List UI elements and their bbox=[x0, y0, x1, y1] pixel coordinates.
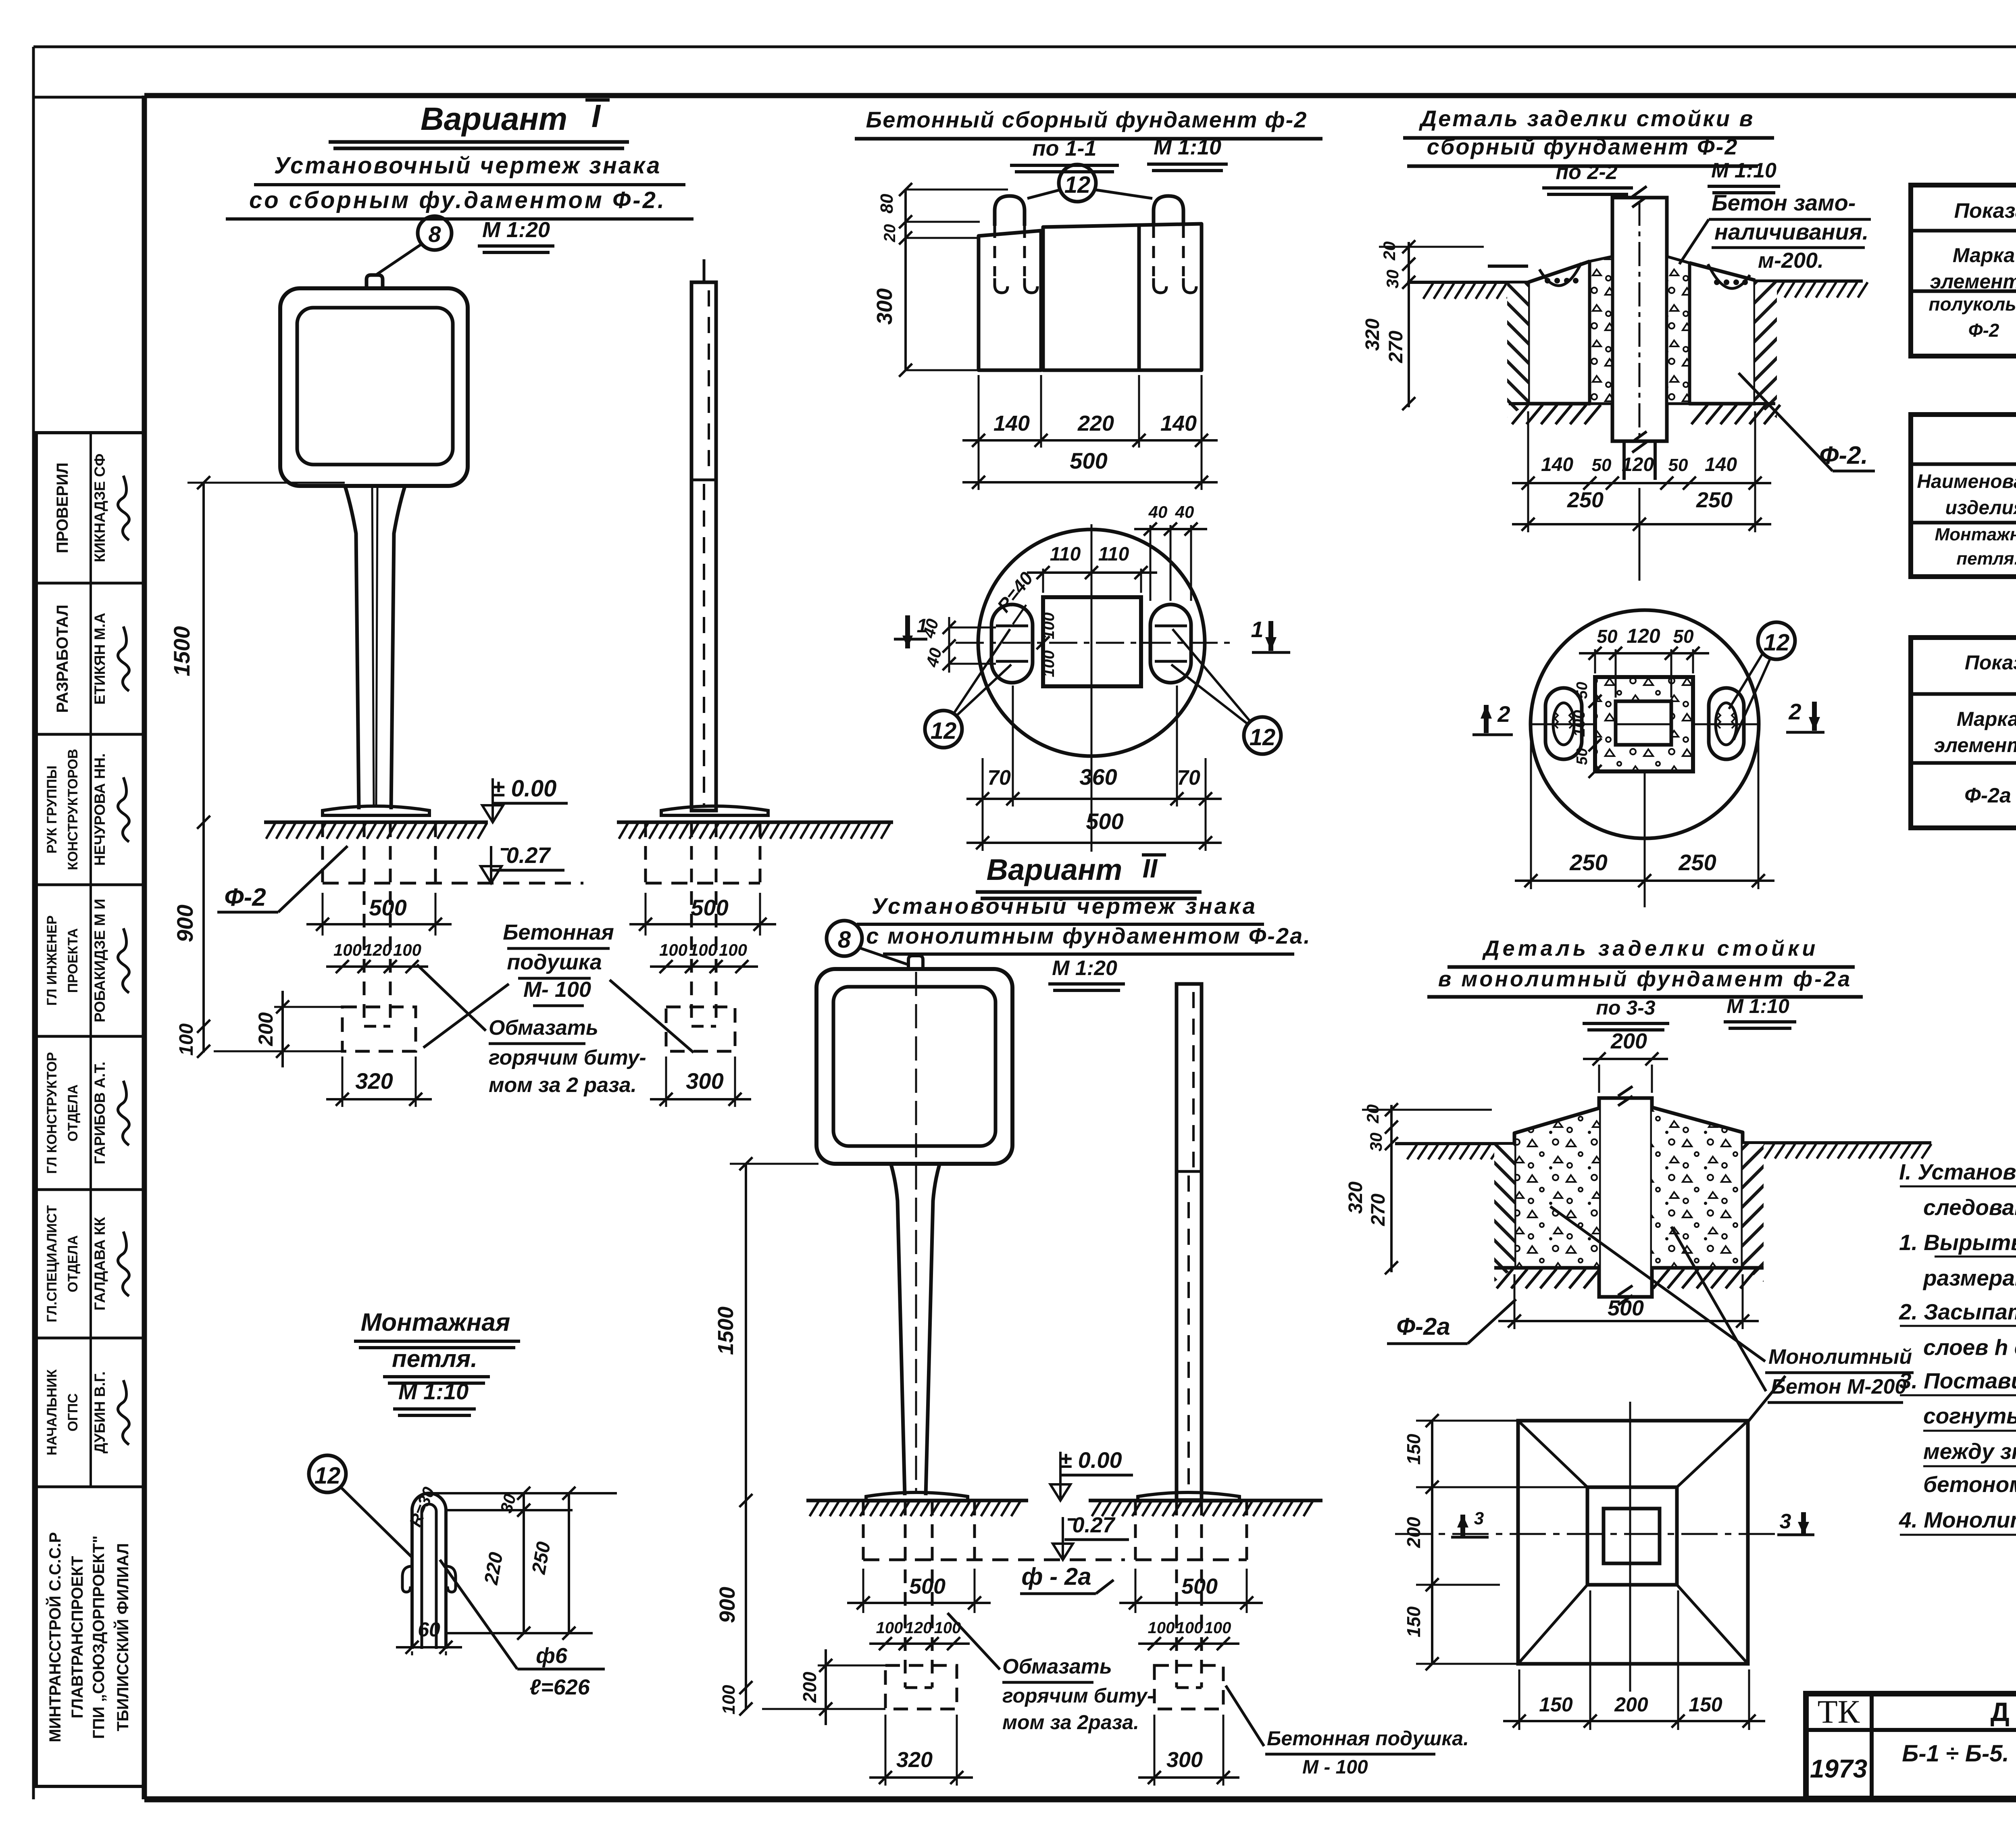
svg-text:Показатели на сборный фундамен: Показатели на сборный фундамент Вариант … bbox=[1954, 199, 2016, 223]
svg-text:100: 100 bbox=[689, 940, 717, 959]
svg-text:мом за 2раза.: мом за 2раза. bbox=[1002, 1711, 1139, 1734]
svg-text:500: 500 bbox=[691, 895, 728, 920]
svg-text:1. Вырыть яму, устроить бет: 1. Вырыть яму, устроить бетонную подушку… bbox=[1899, 1230, 2016, 1255]
svg-text:по 2-2: по 2-2 bbox=[1556, 160, 1617, 184]
svg-text:120: 120 bbox=[905, 1619, 932, 1637]
svg-text:2. Засыпать яму грунтом с: 2. Засыпать яму грунтом с послойным трам… bbox=[1899, 1299, 2016, 1324]
svg-text:Ф-2: Ф-2 bbox=[1968, 320, 1999, 341]
svg-text:Обмазать: Обмазать bbox=[489, 1016, 598, 1040]
ground line right 3-3 bbox=[1743, 1141, 1931, 1144]
plan centerlines bbox=[1091, 524, 1093, 762]
loop hook right bbox=[446, 1566, 456, 1592]
svg-text:элемента.: элемента. bbox=[1930, 270, 2016, 293]
svg-text:РУК ГРУППЫ: РУК ГРУППЫ bbox=[44, 765, 60, 853]
svg-text:Бетонная подушка.: Бетонная подушка. bbox=[1267, 1727, 1469, 1750]
plan 2-2 centerline horizontal bbox=[1532, 723, 1758, 725]
svg-text:Показатели на монолитный фу: Показатели на монолитный фундамент. Вари… bbox=[1965, 651, 2016, 674]
foundation pit dashed variant I side bbox=[644, 823, 647, 883]
svg-text:Вариант: Вариант bbox=[987, 853, 1123, 886]
svg-text:РАЗРАБОТАЛ: РАЗРАБОТАЛ bbox=[54, 604, 71, 713]
dim 200 cushion bbox=[281, 991, 284, 1067]
callout 12 left plan bbox=[925, 711, 962, 748]
post front variant II bbox=[891, 1165, 939, 1495]
dim 30 loop bbox=[429, 1492, 617, 1494]
section mark 1 right bbox=[1268, 621, 1273, 651]
svg-text:300: 300 bbox=[873, 288, 897, 325]
svg-text:2: 2 bbox=[1497, 701, 1510, 727]
svg-text:М 1:10: М 1:10 bbox=[1154, 135, 1221, 159]
svg-text:200: 200 bbox=[799, 1671, 820, 1703]
svg-text:Ф-2: Ф-2 bbox=[224, 884, 266, 911]
svg-text:12: 12 bbox=[1250, 724, 1276, 750]
sign plate variant II front bbox=[816, 969, 1012, 1164]
pit hatch left wall 2-2 bbox=[1507, 283, 1528, 417]
sign top nub front view bbox=[367, 275, 383, 289]
svg-text:1500: 1500 bbox=[169, 626, 194, 677]
ground line variant II side bbox=[1089, 1499, 1322, 1503]
svg-text:сборный фундамент Ф-2: сборный фундамент Ф-2 bbox=[1427, 134, 1739, 159]
left dim chain 3-3 bbox=[1390, 1105, 1393, 1272]
svg-text:ГПИ „СОЮЗДОРПРОЕКТ": ГПИ „СОЮЗДОРПРОЕКТ" bbox=[90, 1536, 108, 1739]
svg-text:250: 250 bbox=[1569, 850, 1607, 875]
svg-text:Бетон М-200: Бетон М-200 bbox=[1771, 1375, 1906, 1398]
svg-text:8: 8 bbox=[428, 221, 441, 247]
svg-text:3: 3 bbox=[1780, 1510, 1791, 1533]
svg-text:200: 200 bbox=[1403, 1517, 1424, 1548]
svg-text:ЕТИКЯН М.А: ЕТИКЯН М.А bbox=[92, 613, 108, 705]
foundation block right element bbox=[1043, 224, 1202, 370]
svg-text:ф - 2а: ф - 2а bbox=[1021, 1563, 1091, 1590]
table showers for monolithic foundation variant II bbox=[1911, 638, 2016, 828]
svg-text:Монтажная: Монтажная bbox=[1935, 525, 2016, 544]
side view variant I bbox=[691, 282, 716, 811]
svg-text:Деталь заделки стойки в: Деталь заделки стойки в bbox=[1419, 106, 1755, 131]
foundation block left 2-2 bbox=[1528, 261, 1590, 404]
svg-text:ОТДЕЛА: ОТДЕЛА bbox=[65, 1084, 81, 1142]
svg-text:250: 250 bbox=[1696, 488, 1733, 512]
svg-text:3. Поставить сборные полуко: 3. Поставить сборные полукольца, петли в… bbox=[1899, 1368, 2016, 1393]
svg-text:250: 250 bbox=[1567, 488, 1604, 512]
svg-text:12: 12 bbox=[314, 1463, 341, 1489]
svg-text:320: 320 bbox=[355, 1068, 393, 1094]
svg-text:20: 20 bbox=[881, 224, 899, 243]
svg-text:размерам, указанным на че: размерам, указанным на чертеже. bbox=[1922, 1265, 2016, 1290]
svg-text:500: 500 bbox=[1070, 448, 1107, 473]
svg-text:30: 30 bbox=[1383, 270, 1402, 289]
callout 12 circle loop detail bbox=[309, 1455, 346, 1492]
svg-text:Деталь заделки стойки: Деталь заделки стойки bbox=[1482, 936, 1819, 961]
plan circle 2-2 bbox=[1531, 610, 1759, 838]
svg-text:100: 100 bbox=[176, 1023, 197, 1056]
drawing frame bbox=[144, 93, 2016, 98]
pit hatch right wall 2-2 bbox=[1755, 282, 1777, 418]
svg-text:20: 20 bbox=[1363, 1105, 1382, 1124]
dims left 150 200 150 plan 3-3 bbox=[1431, 1421, 1433, 1664]
svg-text:100: 100 bbox=[1570, 710, 1588, 737]
svg-text:ТБИЛИССКИЙ ФИЛИАЛ: ТБИЛИССКИЙ ФИЛИАЛ bbox=[113, 1543, 132, 1732]
svg-text:140: 140 bbox=[1705, 454, 1737, 475]
section mark 2 right bbox=[1812, 702, 1817, 731]
svg-text:100: 100 bbox=[1204, 1619, 1231, 1637]
svg-text:следовательности:: следовательности: bbox=[1923, 1195, 2016, 1220]
cushion dashed variant II front bbox=[885, 1665, 957, 1709]
svg-text:300: 300 bbox=[1166, 1748, 1203, 1772]
svg-text:50: 50 bbox=[1673, 626, 1694, 647]
section mark 2 left bbox=[1484, 705, 1489, 733]
pit walls hatch 3-3 bbox=[1494, 1145, 1514, 1282]
left dim chain variant I bbox=[202, 483, 205, 1052]
sign plate front view bbox=[280, 288, 468, 486]
callout 12 right plan bbox=[1244, 717, 1281, 754]
svg-text:ДУБИН В.Г.: ДУБИН В.Г. bbox=[92, 1371, 108, 1454]
callout 12 circle precast front bbox=[1059, 165, 1096, 202]
svg-text:270: 270 bbox=[1368, 1194, 1389, 1226]
plan slot right bbox=[1150, 604, 1191, 683]
concrete ring square 2-2 bbox=[1595, 677, 1693, 771]
foundation block right 2-2 bbox=[1689, 263, 1755, 404]
left title block table bbox=[36, 433, 145, 1786]
svg-text:М 1:20: М 1:20 bbox=[1052, 957, 1117, 980]
svg-text:Бетон замо-: Бетон замо- bbox=[1712, 190, 1856, 215]
ground line variant II front bbox=[806, 1499, 1028, 1503]
montage loop right front bbox=[1154, 196, 1183, 226]
ground line left 3-3 bbox=[1395, 1142, 1514, 1145]
leader beton bbox=[1679, 219, 1709, 264]
svg-text:по 3-3: по 3-3 bbox=[1596, 996, 1655, 1019]
svg-text:мом за 2 раза.: мом за 2 раза. bbox=[489, 1073, 637, 1097]
foundation block left element bbox=[979, 231, 1041, 370]
svg-text:М 1:10: М 1:10 bbox=[1727, 995, 1789, 1017]
svg-text:М 1:10: М 1:10 bbox=[398, 1379, 469, 1404]
svg-text:м-200.: м-200. bbox=[1758, 248, 1824, 273]
svg-text:I. Установку знака осуществить: I. Установку знака осуществить в следующ… bbox=[1899, 1159, 2016, 1184]
svg-text:слоев h слоя - 20см.: слоев h слоя - 20см. bbox=[1923, 1335, 2016, 1360]
loop socket arc left bbox=[1539, 263, 1581, 286]
base plate variant II side bbox=[1138, 1492, 1239, 1501]
svg-text:ПРОЕКТА: ПРОЕКТА bbox=[65, 928, 81, 993]
svg-text:по 1-1: по 1-1 bbox=[1032, 136, 1096, 160]
svg-text:120: 120 bbox=[1627, 625, 1660, 647]
svg-text:900: 900 bbox=[715, 1587, 739, 1623]
left dim chain variant II bbox=[745, 1164, 747, 1710]
svg-text:изделия.: изделия. bbox=[1945, 497, 2016, 519]
svg-text:150: 150 bbox=[1539, 1693, 1573, 1716]
pit dashed variant II side bbox=[1134, 1502, 1137, 1560]
svg-text:Вариант: Вариант bbox=[421, 101, 567, 137]
leader obmazat bbox=[417, 965, 486, 1031]
svg-text:горячим биту-: горячим биту- bbox=[489, 1046, 646, 1069]
post section 2-2 bbox=[1612, 198, 1667, 441]
svg-text:100: 100 bbox=[719, 940, 747, 959]
svg-text:100: 100 bbox=[1176, 1619, 1203, 1637]
svg-text:110: 110 bbox=[1050, 544, 1081, 565]
svg-text:500: 500 bbox=[909, 1574, 946, 1598]
svg-text:120: 120 bbox=[1622, 454, 1654, 475]
ground level left 2-2 bbox=[1488, 265, 1528, 268]
svg-text:500: 500 bbox=[369, 895, 406, 920]
ground hatch left 2-2 bbox=[1423, 283, 1527, 299]
svg-text:3: 3 bbox=[1474, 1509, 1484, 1528]
svg-text:с монолитным фундаментом Ф-2: с монолитным фундаментом Ф-2а. bbox=[866, 923, 1311, 948]
foundation pit dashed variant I front bbox=[321, 823, 324, 883]
svg-text:12: 12 bbox=[931, 718, 957, 744]
svg-text:ℓ=626: ℓ=626 bbox=[529, 1675, 590, 1699]
outer sheet border bbox=[33, 46, 2016, 48]
svg-text:100: 100 bbox=[333, 940, 362, 959]
leader loop diagonal bbox=[440, 1560, 517, 1669]
svg-text:0.27: 0.27 bbox=[1072, 1513, 1116, 1537]
svg-text:± 0.00: ± 0.00 bbox=[492, 775, 557, 802]
svg-text:120: 120 bbox=[363, 940, 392, 959]
svg-text:150: 150 bbox=[1403, 1434, 1424, 1465]
svg-text:ГЛ.СПЕЦИАЛИСТ: ГЛ.СПЕЦИАЛИСТ bbox=[44, 1205, 60, 1323]
section mark 1 left bbox=[905, 615, 910, 648]
svg-text:Монолитный: Монолитный bbox=[1768, 1345, 1912, 1369]
svg-text:270: 270 bbox=[1385, 331, 1407, 363]
svg-text:Монтажная: Монтажная bbox=[361, 1309, 510, 1336]
notes emphasis underlines bbox=[1900, 1186, 2016, 1188]
svg-text:согнуть и сварить фуг с др: согнуть и сварить фуг с другом, после эт… bbox=[1923, 1403, 2016, 1428]
monolithic concrete block 3-3 bbox=[1514, 1108, 1599, 1268]
svg-text:Б-1 ÷ Б-5. Установочный чертеж: Б-1 ÷ Б-5. Установочный чертеж Фундамент bbox=[1902, 1740, 2016, 1767]
ground line variant I side bbox=[617, 821, 893, 824]
svg-text:100: 100 bbox=[1040, 650, 1058, 677]
svg-text:360: 360 bbox=[1079, 764, 1117, 790]
svg-text:8: 8 bbox=[838, 927, 851, 953]
svg-text:НАЧАЛЬНИК: НАЧАЛЬНИК bbox=[44, 1369, 60, 1456]
svg-text:бетоном м-100 на мелком: бетоном м-100 на мелком заполнителе. bbox=[1923, 1472, 2016, 1497]
svg-text:ГАРИБОВ А.Т.: ГАРИБОВ А.Т. bbox=[92, 1062, 108, 1165]
svg-text:140: 140 bbox=[993, 411, 1030, 436]
loop socket arc right bbox=[1708, 264, 1750, 288]
pit bottom hatch 3-3 bbox=[1497, 1269, 1756, 1288]
base plate variant II front bbox=[866, 1492, 968, 1501]
loop hook left bbox=[402, 1566, 412, 1592]
svg-text:Обмазать: Обмазать bbox=[1002, 1655, 1112, 1678]
left dim chain 2-2 bbox=[1408, 242, 1410, 407]
svg-text:горячим биту-: горячим биту- bbox=[1002, 1684, 1154, 1707]
svg-text:наличивания.: наличивания. bbox=[1714, 219, 1868, 244]
plan center square bbox=[1043, 597, 1141, 686]
svg-text:ОТДЕЛА: ОТДЕЛА bbox=[65, 1235, 81, 1292]
svg-text:250: 250 bbox=[1678, 850, 1716, 875]
svg-text:ГЛ КОНСТРУКТОР: ГЛ КОНСТРУКТОР bbox=[44, 1052, 60, 1174]
svg-text:ГАЛДАВА КК: ГАЛДАВА КК bbox=[92, 1217, 108, 1311]
svg-text:Установочный чертеж знака: Установочный чертеж знака bbox=[872, 893, 1257, 919]
cushion dashed variant II side bbox=[1154, 1665, 1223, 1709]
svg-text:50: 50 bbox=[1597, 626, 1618, 647]
svg-text:1500: 1500 bbox=[714, 1307, 738, 1355]
svg-text:РОБАКИДЗЕ М И: РОБАКИДЗЕ М И bbox=[92, 899, 108, 1023]
svg-text:200: 200 bbox=[1614, 1693, 1648, 1716]
svg-text:НЕЧУРОВА НН.: НЕЧУРОВА НН. bbox=[92, 753, 108, 866]
svg-text:М 1:10: М 1:10 bbox=[1711, 159, 1776, 182]
svg-text:подушка: подушка bbox=[507, 950, 602, 974]
svg-text:60: 60 bbox=[418, 1618, 440, 1641]
svg-text:Ф-2а: Ф-2а bbox=[1964, 784, 2011, 807]
plan slot left bbox=[991, 604, 1033, 683]
svg-text:50: 50 bbox=[1668, 455, 1688, 475]
left dim chain precast front bbox=[904, 190, 907, 370]
svg-text:ПРОВЕРИЛ: ПРОВЕРИЛ bbox=[54, 463, 71, 553]
svg-text:ТК: ТК bbox=[1818, 1693, 1860, 1730]
svg-text:12: 12 bbox=[1064, 172, 1091, 198]
svg-text:150: 150 bbox=[1689, 1693, 1722, 1716]
section mark 3 left plan bbox=[1460, 1515, 1465, 1537]
leader lines podushka bbox=[423, 984, 509, 1048]
svg-text:100: 100 bbox=[1040, 613, 1058, 640]
callout 8 circle bbox=[418, 216, 452, 250]
svg-text:в монолитный фундамент ф-2а: в монолитный фундамент ф-2а bbox=[1438, 967, 1852, 991]
post shaft dashed below ground bbox=[363, 823, 366, 1026]
svg-text:Установочный чертеж знака: Установочный чертеж знака bbox=[274, 152, 662, 179]
svg-text:2: 2 bbox=[1788, 699, 1801, 724]
svg-text:80: 80 bbox=[877, 194, 897, 213]
svg-text:II: II bbox=[1143, 853, 1158, 883]
svg-text:30: 30 bbox=[1366, 1133, 1385, 1152]
svg-text:500: 500 bbox=[1608, 1296, 1644, 1320]
plan slot right 2-2 bbox=[1709, 688, 1744, 759]
post below pit 2-2 bbox=[1624, 440, 1655, 443]
svg-text:петля.: петля. bbox=[392, 1345, 477, 1372]
svg-text:1973: 1973 bbox=[1810, 1754, 1867, 1783]
pit dashed variant II front bbox=[862, 1502, 865, 1560]
svg-text:КИКНАДЗЕ СФ: КИКНАДЗЕ СФ bbox=[92, 454, 108, 563]
svg-text:элемента.: элемента. bbox=[1934, 734, 2016, 756]
base plate side view bbox=[661, 806, 768, 815]
svg-text:М- 100: М- 100 bbox=[523, 977, 591, 1002]
callout 8 circle variant II bbox=[827, 921, 862, 956]
side view variant II bbox=[1177, 984, 1202, 1500]
dim 200 variant II cushion bbox=[825, 1649, 827, 1725]
svg-text:ОГПС: ОГПС bbox=[65, 1393, 81, 1432]
post section 3-3 bbox=[1599, 1098, 1652, 1297]
svg-text:500: 500 bbox=[1086, 809, 1123, 834]
plan inner square 3-3 bbox=[1587, 1487, 1677, 1585]
svg-text:320: 320 bbox=[1345, 1182, 1366, 1214]
svg-text:Ф-2а: Ф-2а bbox=[1396, 1313, 1450, 1340]
svg-text:полукольцо: полукольцо bbox=[1929, 294, 2016, 315]
svg-text:1: 1 bbox=[1251, 617, 1263, 642]
svg-text:50: 50 bbox=[1574, 682, 1591, 699]
sign centerline variant II bbox=[915, 972, 917, 1492]
concrete cushion dashed variant I front bbox=[342, 1007, 416, 1051]
svg-text:ДОРОЖНЫЕ ЗНАКИ: ДОРОЖНЫЕ ЗНАКИ bbox=[1991, 1697, 2016, 1727]
svg-text:320: 320 bbox=[896, 1748, 933, 1772]
svg-text:100: 100 bbox=[393, 940, 421, 959]
concrete cushion dashed side bbox=[666, 1007, 735, 1051]
svg-text:200: 200 bbox=[1610, 1029, 1647, 1053]
plan slot left 2-2 bbox=[1545, 688, 1582, 759]
svg-text:ГЛ ИНЖЕНЕР: ГЛ ИНЖЕНЕР bbox=[44, 915, 60, 1006]
svg-text:100: 100 bbox=[876, 1619, 903, 1637]
plan circle 1-1 bbox=[978, 529, 1205, 756]
svg-text:100: 100 bbox=[659, 940, 687, 959]
svg-text:140: 140 bbox=[1160, 411, 1197, 436]
ground line right 2-2 bbox=[1755, 279, 1863, 283]
svg-text:110: 110 bbox=[1098, 544, 1129, 565]
leaders monolithic beton bbox=[1550, 1207, 1765, 1361]
plan centerlines 3-3 bbox=[1629, 1402, 1631, 1692]
svg-text:40: 40 bbox=[1148, 502, 1168, 521]
svg-text:± 0.00: ± 0.00 bbox=[1059, 1447, 1122, 1473]
post shaft dashed side bbox=[690, 823, 693, 1026]
svg-text:900: 900 bbox=[172, 904, 198, 942]
table showers for precast foundation variant I bbox=[1911, 185, 2016, 356]
svg-text:между знаком и полукольцами: между знаком и полукольцами замонолитить bbox=[1923, 1439, 2016, 1464]
svg-text:ф6: ф6 bbox=[536, 1644, 568, 1668]
svg-text:Марка: Марка bbox=[1953, 244, 2015, 267]
svg-text:100: 100 bbox=[1148, 1619, 1175, 1637]
plan diagonals 3-3 bbox=[1518, 1421, 1587, 1487]
svg-text:Бетонный сборный фундамент: Бетонный сборный фундамент ф-2 bbox=[866, 107, 1308, 132]
svg-text:ГЛАВТРАНСПРОЕКТ: ГЛАВТРАНСПРОЕКТ bbox=[69, 1556, 86, 1719]
svg-text:20: 20 bbox=[1380, 242, 1399, 261]
svg-text:100: 100 bbox=[719, 1685, 739, 1715]
grout concrete strips 2-2 bbox=[1590, 256, 1612, 404]
svg-text:200: 200 bbox=[254, 1012, 277, 1046]
svg-text:М 1:20: М 1:20 bbox=[482, 218, 550, 242]
svg-text:300: 300 bbox=[686, 1068, 723, 1094]
sign nub variant II bbox=[908, 956, 923, 969]
svg-text:12: 12 bbox=[1764, 629, 1790, 656]
svg-text:1: 1 bbox=[917, 615, 928, 637]
plan square 3-3 bbox=[1518, 1421, 1748, 1664]
svg-text:КОНСТРУКТОРОВ: КОНСТРУКТОРОВ bbox=[65, 749, 81, 870]
svg-text:70: 70 bbox=[987, 766, 1011, 790]
svg-text:0.27: 0.27 bbox=[506, 842, 552, 868]
montage loop shape bbox=[412, 1493, 446, 1649]
callout 12 circle plan 2-2 bbox=[1758, 622, 1795, 659]
svg-text:500: 500 bbox=[1181, 1574, 1218, 1598]
table metal consumption bbox=[1911, 415, 2016, 577]
svg-text:70: 70 bbox=[1177, 766, 1200, 790]
post below 3-3 bbox=[1599, 1268, 1599, 1297]
svg-text:140: 140 bbox=[1541, 454, 1573, 475]
svg-text:4. Монолитный бетон устил: 4. Монолитный бетон устиливается в опалу… bbox=[1899, 1507, 2016, 1532]
svg-text:50: 50 bbox=[1592, 455, 1612, 475]
svg-text:петля.: петля. bbox=[1956, 549, 2016, 569]
svg-text:со сборным фу.даментом: со сборным фу.даментом Ф-2. bbox=[249, 187, 666, 213]
montage loop left front bbox=[995, 196, 1025, 226]
post front view variant I bbox=[345, 485, 405, 809]
base plate front view bbox=[323, 806, 429, 815]
section mark 3 right plan bbox=[1801, 1512, 1806, 1535]
svg-text:I: I bbox=[591, 98, 601, 134]
svg-text:150: 150 bbox=[1403, 1606, 1424, 1637]
ground line variant I front bbox=[264, 821, 488, 824]
svg-text:220: 220 bbox=[1077, 411, 1114, 436]
svg-text:Наименование: Наименование bbox=[1917, 471, 2016, 492]
shaft dashed variant II side bbox=[1175, 1502, 1178, 1688]
svg-text:М - 100: М - 100 bbox=[1302, 1757, 1368, 1778]
title block bottom right bbox=[1806, 1694, 2016, 1798]
svg-text:320: 320 bbox=[1362, 319, 1383, 351]
svg-text:40: 40 bbox=[1175, 502, 1194, 521]
svg-text:МИНТРАНССТРОЙ С.С.С.Р: МИНТРАНССТРОЙ С.С.С.Р bbox=[46, 1532, 64, 1742]
shaft dashed variant II front bbox=[904, 1502, 907, 1688]
pit bottom hatch 2-2 bbox=[1512, 405, 1780, 424]
svg-text:Марка: Марка bbox=[1957, 708, 2016, 730]
svg-text:Бетонная: Бетонная bbox=[503, 920, 614, 944]
